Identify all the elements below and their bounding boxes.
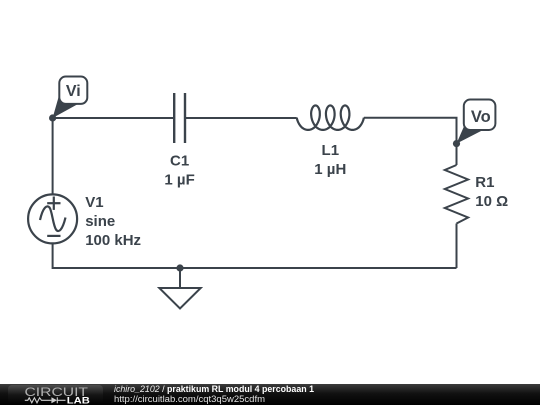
footer logo button <box>8 385 103 405</box>
wire right rail below R1 <box>456 224 458 269</box>
flag Vo box <box>464 100 496 131</box>
wire bottom rail <box>53 243 457 268</box>
wire left rail: Vi node to V1 top <box>52 118 54 194</box>
svg-text:L1: L1 <box>322 142 340 159</box>
node Vo dot <box>453 140 460 147</box>
capacitor C1 <box>174 93 185 143</box>
footer bar <box>0 384 540 405</box>
svg-text:R1: R1 <box>475 174 494 191</box>
logo resistor-diode wire <box>25 397 66 403</box>
wire top-left: Vi node to C1 <box>53 117 174 119</box>
node Vi dot <box>49 114 56 121</box>
logo diode triangle <box>51 397 57 403</box>
ground <box>159 268 200 309</box>
resistor R1 <box>445 165 468 224</box>
flag Vi tail <box>53 92 78 118</box>
node ground dot <box>176 264 183 271</box>
wire L1 to top-right corner <box>364 118 457 165</box>
svg-text:100 kHz: 100 kHz <box>85 232 141 249</box>
inductor L1 <box>297 106 364 130</box>
svg-text:1 µF: 1 µF <box>164 172 194 189</box>
flag Vo tail <box>457 124 484 144</box>
svg-text:http://circuitlab.com/cqt3q5w2: http://circuitlab.com/cqt3q5w25cdfm <box>114 394 265 405</box>
svg-text:V1: V1 <box>85 194 103 211</box>
svg-text:10 Ω: 10 Ω <box>475 193 508 210</box>
svg-text:1 µH: 1 µH <box>314 161 346 178</box>
svg-text:C1: C1 <box>170 153 189 170</box>
voltage source V1 <box>28 194 77 243</box>
svg-text:sine: sine <box>85 213 115 230</box>
flag Vi box <box>59 77 87 104</box>
svg-text:Vo: Vo <box>471 108 491 126</box>
wire C1 to L1 <box>185 117 297 119</box>
svg-text:LAB: LAB <box>67 395 91 405</box>
svg-text:Vi: Vi <box>66 83 81 100</box>
